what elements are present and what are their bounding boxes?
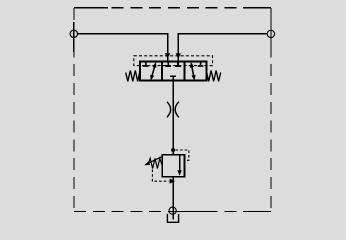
arrowhead into valve (right line) bbox=[176, 53, 181, 58]
wire from P2 to valve right pilot port bbox=[178, 34, 267, 62]
R1 drain line (dashed, from spring side to downstream) bbox=[152, 170, 175, 184]
V1 left position: blocked port + double-headed diagonal arrow bbox=[143, 62, 156, 81]
port P3 (bottom, on boundary) bbox=[169, 207, 176, 214]
R1 adjustable spring bbox=[148, 158, 162, 168]
V1 right position: blocked port + double-headed diagonal arrow bbox=[190, 62, 204, 81]
wire from P1 to valve left pilot port bbox=[77, 34, 167, 62]
directional valve V1 body (3 positions) bbox=[140, 62, 207, 81]
orifice (restriction) on the line bbox=[167, 102, 179, 118]
V1 left return spring bbox=[126, 71, 140, 82]
enclosure border (dashed system boundary) bbox=[74, 8, 271, 212]
V1 right return spring bbox=[207, 71, 221, 82]
arrowhead into valve (left line) bbox=[165, 53, 170, 58]
wire from valve bottom port down to relief valve bbox=[172, 81, 174, 155]
V1 center position: closed (all ports blocked) bbox=[165, 62, 181, 81]
relief valve R1 body bbox=[162, 155, 184, 177]
junction node (pilot tap) bbox=[171, 148, 175, 152]
pilot dashed frame around valve top bbox=[134, 56, 213, 66]
R1 pilot line (dashed, from upstream tap to right side) bbox=[176, 150, 189, 160]
tank T1 bbox=[167, 214, 178, 222]
wire from relief valve to bottom port bbox=[172, 177, 174, 220]
port P2 (top-right, on boundary) bbox=[267, 30, 274, 37]
port P1 (top-left, on boundary) bbox=[70, 30, 77, 37]
R1 adjustment arrow bbox=[144, 157, 162, 166]
R1 internal flow arrow (offset, normally closed) bbox=[177, 155, 181, 176]
wire stub into tank bbox=[0, 0, 1, 1]
